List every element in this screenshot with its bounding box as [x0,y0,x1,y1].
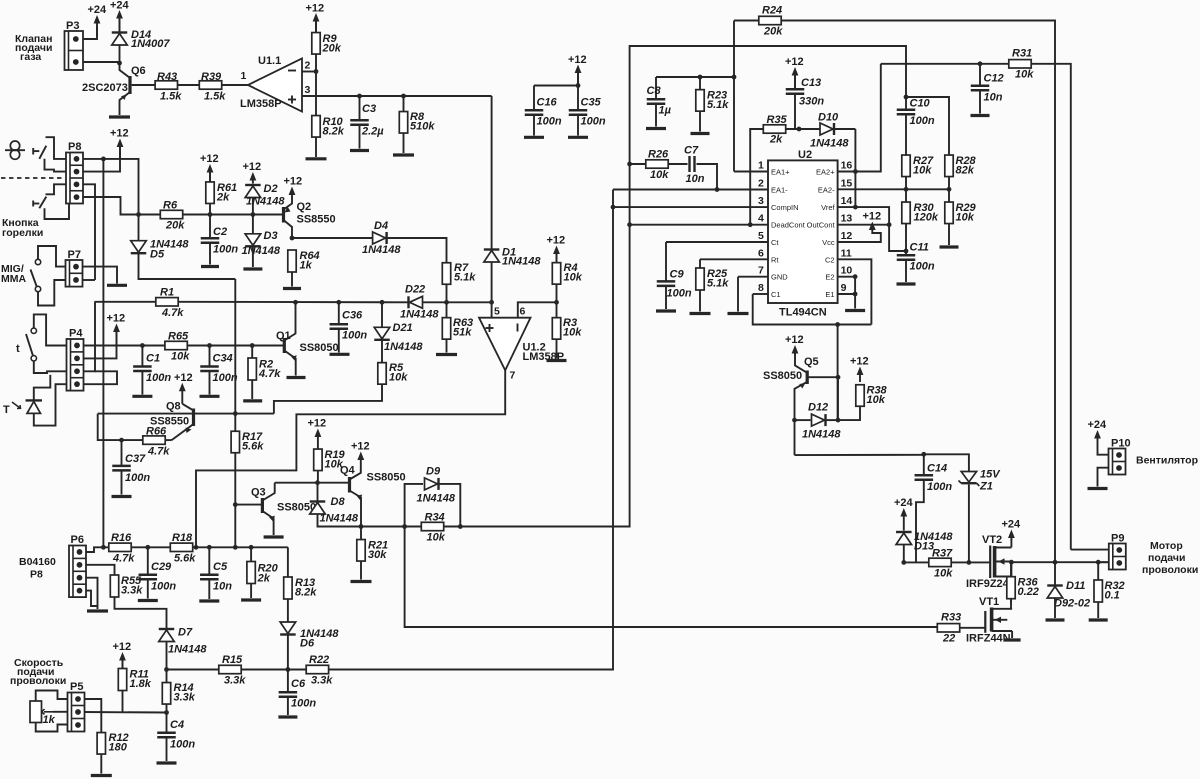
resistor R6 [160,200,185,232]
wire D5 bus down [234,279,236,431]
wire R11 to row [122,691,124,713]
supply +24 (VT2) [1002,519,1022,541]
svg-text:C9: C9 [670,269,685,281]
wire row to Z1 [924,454,969,471]
wire U1.1 pin3 row [302,95,492,97]
resistor R65 [165,331,190,363]
svg-text:100n: 100n [667,288,692,300]
svg-text:проволоки: проволоки [1142,564,1198,576]
capacitor C36 [330,310,368,342]
wire C7 to pin2 row [697,164,718,190]
wire R25 gnd stem [699,290,701,312]
svg-text:C4: C4 [170,719,184,731]
capacitor C14 [915,463,953,494]
wire R15-R22 row [241,669,306,671]
supply +12 (R38) [850,356,869,383]
svg-text:R37: R37 [932,548,953,560]
wire C12 stem [979,64,981,85]
ground P7 pin1 [107,284,127,287]
wire C36 gnd stem [338,330,340,353]
wire R38 to D12 [838,406,860,420]
svg-text:R1: R1 [160,287,174,299]
svg-text:3.3k: 3.3k [121,585,143,597]
svg-text:15V: 15V [980,469,1001,481]
wire R23 gnd stem [699,111,701,132]
connector P9 [1109,533,1126,570]
ground R12 [91,774,112,777]
wire D1 column [491,262,493,302]
svg-text:10n: 10n [213,581,232,593]
svg-text:1.5k: 1.5k [160,91,182,103]
wire C14 bottom [916,481,924,563]
wire +12 to R9 [315,22,317,33]
svg-text:R43: R43 [157,71,177,83]
wire R15 row [167,669,219,671]
diode D6 [280,622,339,650]
svg-text:3.3k: 3.3k [224,675,246,687]
wire pin8 to drive row [753,294,872,325]
node bus/R16 [101,545,106,550]
wire Q5 base [807,376,838,378]
svg-text:R15: R15 [222,654,243,666]
node C29 [145,545,150,550]
ground C34 [200,395,220,398]
wire C8 gnd stem [655,105,657,127]
svg-text:10k: 10k [563,327,582,339]
resistor R32 [1094,580,1125,602]
switch torch upper [33,146,46,159]
node VT2/R36 [1009,560,1014,565]
connector P3 [65,20,84,70]
node D13/R37 [901,560,906,565]
wire D4 to R7 [387,238,447,263]
node E1 [853,292,858,297]
wire C10 stem [905,97,907,109]
transistor Q5 [763,354,819,456]
wire R18 right row [193,546,288,548]
wire D1 up [491,96,493,249]
node C1C2/Q5base [835,322,840,327]
connector P4 [67,328,84,391]
svg-text:20k: 20k [165,220,185,232]
node R61/C2 [208,212,213,217]
wire R25 stem [699,259,701,268]
wire P6 pin2 to R55 [86,565,115,575]
resistor R27 [902,155,934,177]
node P3 pin2 junction [117,61,122,66]
svg-text:10k: 10k [913,165,932,177]
wire R28 to pin15 [948,177,950,190]
svg-text:+12: +12 [243,161,262,173]
svg-text:R34: R34 [425,512,445,524]
node R28/pin15 [947,187,952,192]
svg-text:C10: C10 [910,98,931,110]
wire P5 pin1 to R12 [84,699,101,733]
wire C10 row right [906,97,949,155]
wire D10 to pin16 bus [835,128,856,130]
svg-text:7: 7 [758,265,764,277]
svg-text:1.8k: 1.8k [130,678,152,690]
ground R25 [690,312,711,315]
wire R12 gnd stem [100,754,102,774]
svg-text:4: 4 [758,213,764,225]
ground C9 [656,309,676,312]
wire D9 left leg [405,484,423,527]
wire torch upper pivot [45,159,67,172]
svg-text:3.3k: 3.3k [174,692,196,704]
svg-text:C1: C1 [146,353,160,365]
wire VT1 drain to R36 [1010,599,1012,609]
wire pin8 C1 jog [753,293,768,295]
svg-text:C1: C1 [771,290,781,299]
svg-text:R39: R39 [201,71,222,83]
svg-text:1: 1 [241,70,247,82]
svg-text:D7: D7 [178,627,193,639]
node pin3/R8 [401,94,406,99]
wire photodiode cathode [34,375,51,401]
label Мотор подачи проволоки [1142,540,1198,576]
ground P6 [87,609,108,612]
svg-text:100n: 100n [291,698,316,710]
svg-text:120k: 120k [914,212,939,224]
wire D8 stem top [317,483,319,501]
wire C1 gnd stem [141,372,143,395]
svg-text:5.6k: 5.6k [174,553,196,565]
svg-text:1k: 1k [300,260,313,272]
svg-text:10k: 10k [389,372,408,384]
svg-text:1N4148: 1N4148 [802,429,841,441]
svg-text:1N4148: 1N4148 [384,341,423,353]
ground C36 [330,353,350,356]
svg-text:EA2+: EA2+ [816,168,835,177]
resistor R19 [314,449,346,471]
node C14 row [921,452,926,457]
svg-text:1k: 1k [43,714,56,726]
wire C14 stem [923,454,925,474]
svg-text:VT2: VT2 [982,534,1002,546]
connector P8 [66,141,83,204]
svg-text:16: 16 [841,160,853,172]
svg-text:10n: 10n [686,173,705,185]
mech link dashed [1,177,64,179]
wire C4 stem [166,713,168,733]
svg-text:+12: +12 [547,235,566,247]
svg-text:5.1k: 5.1k [454,272,476,284]
node R7/row [444,300,449,305]
svg-text:P4: P4 [69,328,83,340]
capacitor C10 [897,98,935,128]
wire R20 stem [250,547,252,561]
svg-text:D4: D4 [374,220,388,232]
ground R29 [940,245,959,248]
svg-text:100n: 100n [910,115,935,127]
svg-text:1N4148: 1N4148 [417,493,456,505]
wire R64 gnd stem [291,272,293,287]
capacitor C1 [133,353,171,385]
capacitor C4 [157,719,195,751]
wire R32 gnd stem [1097,602,1099,618]
svg-text:SS8050: SS8050 [763,370,802,382]
wire C3 stem [359,96,361,120]
node R23 top [698,75,703,80]
ground R21 [351,580,372,583]
wire R29 gnd stem [948,224,950,246]
svg-text:D11: D11 [1066,580,1085,592]
svg-text:DeadCont: DeadCont [771,221,806,230]
wire R29 stem [948,189,950,202]
supply +12 (Vcc) [863,211,882,231]
svg-text:2.2µ: 2.2µ [361,126,384,138]
diode D11 [1047,580,1090,610]
wire +12 to R4 [556,254,558,263]
resistor R63 [442,317,473,339]
diode D8 [310,496,359,525]
ground VT1 source [1004,638,1021,641]
wire R7 to row [446,284,448,302]
node D12 cathode/R38 [836,418,841,423]
svg-text:R24: R24 [762,5,782,17]
svg-text:t: t [16,343,20,355]
resistor R3 [552,317,582,339]
svg-text:газа: газа [20,51,41,63]
svg-text:горелки: горелки [2,227,43,239]
supply +12 (Q4) [351,441,370,471]
ground R2 [243,399,262,402]
node D2/D3 [251,212,256,217]
node R30/C11/Vref [904,249,909,254]
switch torch lower (Кнопка горелки) [33,197,46,209]
svg-text:D12: D12 [808,402,828,414]
svg-text:100n: 100n [125,472,150,484]
svg-text:+12: +12 [174,372,193,384]
svg-text:R18: R18 [172,532,193,544]
wire R63 stem [446,302,448,317]
svg-text:10k: 10k [427,532,446,544]
wire R10 to gnd [315,137,317,157]
wire C12 gnd stem [979,91,981,114]
svg-text:11: 11 [841,247,852,259]
svg-text:SS8050: SS8050 [300,342,339,354]
svg-text:TL494CN: TL494CN [779,307,827,319]
connector P7 [66,249,83,287]
svg-text:P8: P8 [30,569,43,581]
node R20 [249,545,254,550]
trimmer 1k [30,701,56,726]
ground C12 [971,114,990,117]
svg-text:C16: C16 [537,97,558,109]
svg-text:C2: C2 [825,255,835,264]
node R34 left / bus [402,524,407,529]
wire pin1 stub [734,171,768,173]
wire P10 pin1 from +24 [1098,439,1109,455]
svg-text:P7: P7 [68,249,81,261]
svg-text:подачи: подачи [1148,552,1185,564]
node C36 [336,300,341,305]
wire P10 pin2 gnd [1098,468,1109,487]
ground C4 [157,761,177,764]
svg-text:1N4007: 1N4007 [131,38,170,50]
svg-text:Vcc: Vcc [822,238,835,247]
wire U1.1 pin2 [302,71,316,73]
capacitor C35 [569,97,606,128]
wire D3 to gnd [252,247,254,268]
svg-text:8.2k: 8.2k [295,587,317,599]
wire R31 row [881,63,1009,65]
svg-text:8.2k: 8.2k [323,126,345,138]
node D7/R14/R15 [164,667,169,672]
ground E1/E2 [845,309,865,312]
svg-text:P6: P6 [71,534,84,546]
resistor R26 [646,149,669,182]
wire Z1 to gate row [968,485,970,563]
svg-text:20k: 20k [322,43,342,55]
ground R20 [241,598,261,601]
svg-text:7: 7 [510,370,516,382]
wire R33 row in [936,626,938,628]
capacitor C16 [525,97,562,128]
svg-text:T: T [3,404,10,416]
supply +12 (C13) [785,56,804,89]
wire P8 pin3 bus [83,184,95,280]
resistor R64 [288,250,320,272]
wire R37 to VT2 gate [951,561,990,563]
wire pin7 gnd stem [737,277,739,312]
wire Q5bus to D12 [837,377,839,420]
wire Q4 base row [318,482,350,484]
wire Q8 base to R66 [98,414,143,441]
wire C37 stem [121,440,123,465]
svg-text:R65: R65 [168,331,189,343]
svg-text:SS8550: SS8550 [297,214,336,226]
resistor R21 [357,540,388,562]
svg-text:1N4148: 1N4148 [502,256,541,268]
capacitor C11 [897,242,935,273]
svg-text:4.7k: 4.7k [147,446,170,458]
transistor Q4 [340,465,406,527]
wire R34-left bus down [405,527,938,628]
resistor R29 [945,202,977,224]
svg-text:D3: D3 [264,230,278,242]
svg-text:MMA: MMA [1,273,26,285]
node Q5 base/bus [836,375,841,380]
svg-text:R26: R26 [648,149,669,161]
wire R61 to row [209,204,211,215]
wire VT2 drain [1010,539,1012,548]
wire R32 stem [1097,562,1099,580]
wire D12 left [795,419,811,421]
wire R21 gnd stem [360,561,362,580]
IC U2 TL494CN box [768,149,838,319]
node C13/R35/D10 [797,127,802,132]
svg-text:Q2: Q2 [297,201,312,213]
diode D5 [131,239,190,261]
op-amp U1.2 [479,306,564,382]
svg-text:0.1: 0.1 [1105,590,1120,602]
wire +12 to R11 [122,661,124,669]
wire R8 stem [403,96,405,112]
wire C10 to R27 [905,115,907,155]
node D6/C6/row [286,667,291,672]
connector P6 [69,534,86,597]
svg-text:Q1: Q1 [276,330,291,342]
svg-text:C2: C2 [213,226,227,238]
svg-text:20k: 20k [763,26,783,38]
resistor R7 [442,262,476,284]
svg-text:D9: D9 [426,466,441,478]
svg-text:VT1: VT1 [979,596,999,608]
resistor R9 [312,33,342,55]
wire P3 pin1 to +24 [83,26,97,39]
label Вентилятор [1136,455,1198,467]
svg-text:5.1k: 5.1k [707,99,729,111]
diode D12 [802,402,841,441]
supply +12 (R4) [547,235,566,268]
node C34 [207,343,212,348]
svg-text:Q4: Q4 [340,465,356,477]
ground C6 [278,715,297,718]
connector P5 [68,681,85,732]
node D12 anode [792,418,797,423]
resistor R33 [937,612,961,645]
resistor R34 [421,512,445,544]
svg-text:D2: D2 [264,183,278,195]
svg-text:U1.1: U1.1 [258,55,281,67]
wire U1.2 output [196,370,505,547]
svg-text:+24: +24 [894,497,914,509]
capacitor C37 [112,453,150,484]
wire C34 gnd stem [209,372,211,395]
wire R55 to D7 [115,597,167,629]
wire trimmer top [36,691,68,702]
wire pin15 row [838,188,949,190]
diode D22 [400,284,439,321]
node Z1/gate row [967,560,972,565]
resistor R14 [162,682,195,704]
wire C16/C35 top [534,73,578,86]
svg-text:2k: 2k [257,573,271,585]
svg-text:510k: 510k [410,121,435,133]
node C16/C35 [576,83,581,88]
wire P4 pin2 +12 [84,332,117,358]
resistor R25 [696,268,729,290]
wire trimmer bottom [36,723,68,732]
svg-text:15: 15 [841,177,853,189]
svg-text:10: 10 [841,265,853,277]
wire P8 pin3 bracket left [46,184,67,194]
svg-text:10k: 10k [867,394,886,406]
wire pin9 stub [838,293,856,295]
transistor Q6 [82,63,146,115]
svg-text:5.1k: 5.1k [707,278,729,290]
wire photodiode anode to P4 pin4 [34,384,67,425]
wire Q3 base [235,504,262,506]
wire pin16 row [838,64,881,172]
wire R5 to Q8 base line [274,384,382,413]
svg-text:2SC2073: 2SC2073 [82,82,128,94]
svg-text:9: 9 [841,282,847,294]
ground R8 [393,153,414,156]
wire P6 pin1 to R16 [86,547,109,552]
wire pin2 row [613,189,768,191]
svg-text:1: 1 [758,160,764,172]
wire R21 stem [360,527,362,540]
wire pin7 gnd [738,276,768,278]
wire E1E2 gnd [854,277,856,309]
resistor R20 [247,562,279,585]
node C12 [978,61,983,66]
node R27/pin15 [904,187,909,192]
transistor Q1 [276,302,339,375]
